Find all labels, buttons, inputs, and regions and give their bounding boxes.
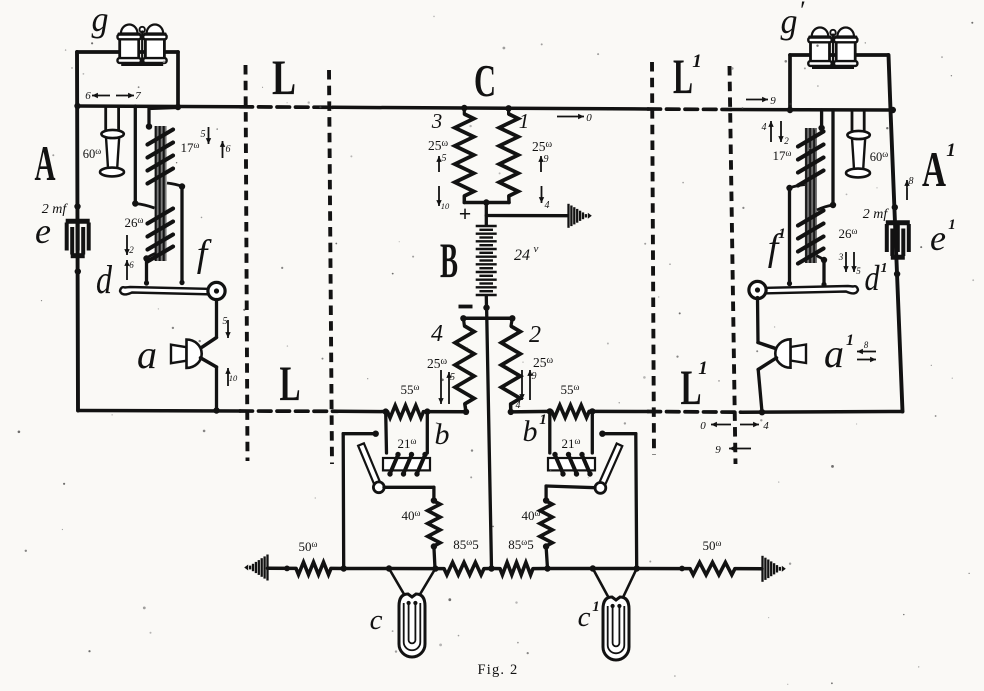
resistor 1 (25w) leads	[507, 108, 510, 114]
svg-text:+: +	[459, 201, 472, 226]
svg-text:1: 1	[698, 358, 708, 379]
node: lamp c1 left junction	[590, 565, 596, 571]
wire: hook pivot to transmitter (A1)	[756, 298, 760, 343]
wire: tap junction to coil	[135, 204, 154, 209]
wire: bottom wire to 55w resistor (left)	[338, 410, 388, 414]
transmitter a (station A)	[171, 345, 187, 364]
arrow 2 down (A1 coil)	[780, 121, 782, 142]
wire: station A left edge	[77, 52, 78, 411]
resistor 40w (left)	[428, 501, 440, 546]
node: resistor 2 bottom junction	[508, 409, 514, 415]
wire: bottom line to lamp c left	[344, 567, 389, 571]
relay b armature	[358, 443, 382, 488]
svg-text:L: L	[673, 48, 693, 104]
arrow 9 up (resistor 2)	[529, 370, 531, 400]
svg-text:2: 2	[784, 136, 789, 146]
node: junction A1 outer edge / top line	[890, 107, 896, 113]
node: hook contact upper	[144, 280, 149, 285]
node: lamp c right junction (40w)	[432, 565, 438, 571]
wire: station A1 top edge	[790, 53, 888, 57]
arrow 7 (current direction, right)	[116, 95, 134, 97]
wire: coil bottom lead (A1)	[816, 256, 824, 261]
wire: transmitter to bottom edge	[215, 367, 218, 411]
resistor 4 (25w)	[455, 326, 474, 404]
resistor 85w5 (left)	[444, 562, 484, 574]
svg-text:3: 3	[838, 252, 844, 262]
svg-text:′: ′	[800, 0, 806, 25]
arrow 1 (by a1)	[857, 359, 876, 361]
ringer g1 (polarized bell)	[812, 28, 829, 37]
svg-text:e: e	[35, 211, 51, 251]
transmitter a1 (station A1)	[791, 345, 807, 364]
svg-text:6: 6	[226, 144, 231, 155]
wire: bottom line to lamp c1 left	[548, 567, 593, 571]
wire: bottom wire node 2 to 55w (right)	[511, 410, 552, 414]
resistor 4 (25w) leads	[463, 318, 464, 326]
resistor 50w (right)	[690, 562, 735, 574]
arrow 5 up (resistor 3)	[438, 156, 440, 172]
wire: station A1 inner edge (ringer box left)	[788, 55, 792, 110]
wire: bottom line L section (dashed)	[240, 409, 338, 413]
arrow 9 (current direction into A1)	[746, 99, 768, 101]
node: resistor 3 top junction	[461, 105, 467, 111]
svg-text:3: 3	[431, 109, 443, 133]
svg-text:L: L	[280, 355, 301, 411]
condenser e 2mf (station A)	[66, 219, 90, 224]
wire: bottom line L1 section (dashed)	[648, 410, 741, 414]
wire: top line L section (dashed)	[240, 105, 333, 109]
wire: bottom edge station A1	[741, 410, 903, 414]
svg-text:6: 6	[85, 90, 91, 102]
node: transmitter / bottom edge junction	[213, 407, 219, 413]
scan speckle noise	[319, 106, 321, 108]
svg-text:9: 9	[532, 371, 537, 382]
node: coil tap junction (A1)	[830, 202, 836, 208]
svg-text:5: 5	[442, 153, 447, 164]
node: transmitter / bottom edge junction (A1)	[759, 409, 765, 415]
wire: receiver hanger left (A1)	[851, 110, 854, 134]
node: junction ringer box right edge / top line	[175, 104, 181, 110]
node: relay b contact / bottom line	[341, 565, 347, 571]
wire: coil bottom to hook contact	[145, 259, 148, 285]
wire: 50w to right earth	[735, 567, 762, 571]
wire: station A1 outer edge	[889, 55, 903, 412]
relay b1 armature	[598, 444, 623, 490]
ground (bottom left earth)	[266, 555, 268, 581]
wire: tap junction to coil (A1)	[817, 205, 833, 210]
svg-text:9: 9	[544, 154, 549, 165]
node: coil bottom junction	[143, 255, 149, 261]
node: coil top junction (A1)	[818, 125, 824, 131]
svg-text:4: 4	[545, 200, 550, 211]
svg-text:2: 2	[129, 245, 134, 255]
resistor 3 (25w) leads	[463, 108, 466, 114]
svg-text:6: 6	[129, 260, 134, 270]
svg-text:d: d	[96, 257, 113, 302]
arrow 4 down (resistor 2)	[521, 370, 523, 400]
battery B lead bottom	[485, 296, 489, 308]
svg-text:5: 5	[856, 266, 861, 276]
wire: 50w to relay contact node	[331, 567, 344, 571]
wire: transmitter to bottom edge (A1)	[758, 370, 762, 413]
svg-text:1: 1	[946, 140, 956, 161]
node: relay b1 contact tip	[599, 431, 605, 437]
boundary L dash-dot line (inner left)	[329, 70, 332, 464]
arrow 8 (by a1)	[857, 351, 876, 353]
wire: lamp c node to 85w5	[435, 567, 444, 571]
svg-text:85ω5: 85ω5	[508, 537, 533, 552]
svg-text:5: 5	[201, 129, 206, 140]
boundary L1 dash-dot line (outer right)	[730, 66, 736, 464]
wire: relay b coil left lead	[384, 412, 388, 453]
wire: receiver hanger right (A1)	[863, 110, 866, 134]
svg-text:10: 10	[441, 201, 450, 211]
svg-text:e: e	[930, 218, 946, 258]
svg-text:B: B	[440, 232, 458, 288]
wire: 85w5 right to 40w node	[533, 567, 548, 571]
wire: battery - split bar	[463, 317, 512, 321]
node: tap f junction	[179, 183, 185, 189]
node: 40w bottom junction (left)	[431, 543, 437, 549]
wire: coil top lead (A1)	[820, 110, 823, 128]
wire: lamp c1 to 50w right	[637, 567, 690, 571]
ground (bottom right earth)	[761, 556, 763, 582]
wire: transmitter upper slant	[201, 338, 217, 349]
svg-text:c: c	[578, 601, 591, 633]
svg-text:1: 1	[592, 599, 600, 615]
node: junction A1 inner edge / top line	[787, 107, 793, 113]
svg-text:1: 1	[881, 261, 888, 276]
wire: ringer box right edge	[176, 52, 180, 107]
svg-text:5: 5	[450, 372, 455, 383]
wire: contact f1 down to hook	[788, 188, 791, 285]
coil winding 26w (station A1)	[798, 211, 824, 226]
node: tap f1 junction	[786, 185, 792, 191]
svg-text:A: A	[35, 135, 56, 191]
ringer g (polarized bell)	[121, 25, 138, 34]
svg-text:b: b	[523, 415, 538, 448]
svg-text:9: 9	[715, 444, 721, 456]
wire: relay b coil right lead	[426, 412, 429, 453]
node: 55w right junction (relay b)	[424, 408, 430, 414]
svg-text:A: A	[922, 141, 946, 197]
node: 40w top junction (left)	[431, 497, 437, 503]
resistor 1 (25w)	[499, 114, 518, 196]
node: hook contact upper (A1)	[821, 282, 826, 287]
wire: transmitter upper slant (A1)	[758, 343, 777, 349]
switch-hook d1 (station A1)	[758, 286, 859, 294]
node: coil primary tap junction	[132, 200, 138, 206]
battery B 24v (exchange)	[476, 225, 497, 227]
wire: bottom wire 55w to node 4 (left)	[424, 410, 467, 414]
node: lamp c left junction	[386, 565, 392, 571]
wire: top line wire (solid, station A to L section)	[77, 104, 240, 108]
arrow 5 up (resistor 4)	[448, 372, 450, 404]
svg-text:d: d	[865, 258, 881, 298]
wire: lamp c1 bridge	[593, 567, 637, 571]
node: 55w left junction (relay b)	[383, 408, 389, 414]
node: 55w right junction (relay b1)	[589, 408, 595, 414]
arrow down (resistor 4)	[440, 370, 442, 404]
svg-text:7: 7	[135, 90, 141, 102]
svg-text:24: 24	[514, 247, 530, 264]
svg-text:4: 4	[763, 420, 769, 432]
svg-text:Fig. 2: Fig. 2	[477, 662, 518, 678]
node: 55w left junction (relay b1)	[547, 408, 553, 414]
svg-text:c: c	[370, 604, 383, 636]
wire: 85w5 to centre node	[484, 567, 492, 571]
wire: coil bottom to hook contact (A1)	[822, 260, 825, 286]
wire: relay b1 coil left lead	[548, 411, 551, 453]
lamp c1 (supervisory glow lamp right)	[593, 569, 613, 606]
svg-text:C: C	[474, 55, 496, 106]
node: contact f1 lower end	[787, 281, 792, 286]
resistor 85w5 (right)	[500, 562, 533, 574]
lamp c (supervisory glow lamp left)	[389, 569, 409, 603]
arrow 8 up (A1 edge)	[906, 180, 908, 200]
arrow 10 down (resistor 3)	[438, 186, 440, 206]
svg-text:9: 9	[770, 95, 776, 107]
svg-text:a: a	[824, 331, 844, 376]
node: 40w top junction (right)	[543, 497, 549, 503]
wire: centre wire battery - to bottom line	[487, 308, 492, 569]
wire: top line solid across exchange C	[333, 107, 648, 109]
svg-text:4: 4	[516, 400, 521, 411]
wire: receiver hanger left	[104, 106, 107, 133]
svg-text:85ω5: 85ω5	[453, 537, 478, 552]
svg-text:g: g	[781, 1, 798, 41]
wire: relay b1 contact	[602, 432, 635, 435]
wire: centre node to 85w5 right	[492, 567, 501, 571]
svg-text:1: 1	[692, 51, 702, 72]
svg-text:0: 0	[586, 112, 592, 124]
svg-text:1: 1	[948, 217, 956, 233]
arrow 6 (current direction, left)	[92, 95, 110, 97]
resistor 40w (right)	[540, 501, 552, 546]
node: condenser e top junction	[74, 203, 80, 209]
node: battery - junction	[483, 304, 489, 310]
wire: 40w bottom lead (right)	[546, 547, 547, 569]
node: lamp c1 right junction (relay contact)	[634, 565, 640, 571]
svg-text:2: 2	[529, 322, 541, 348]
wire: left earth to 50w	[268, 567, 297, 571]
node: resistor 1 top junction	[505, 105, 511, 111]
wire: transmitter lower slant (A1)	[758, 358, 776, 370]
wire: 40w top lead (right)	[544, 486, 547, 501]
battery B lead top	[485, 203, 488, 226]
condenser e1 2mf (station A1)	[886, 220, 910, 225]
arrow 10 up (by transmitter)	[227, 368, 229, 386]
coil winding 17w (station A1)	[798, 132, 824, 147]
wire: bottom wire 55w right to L1	[589, 410, 648, 414]
svg-text:2 mf: 2 mf	[863, 207, 890, 222]
svg-text:4: 4	[431, 321, 443, 347]
arrow 9 up (resistor 1)	[540, 156, 542, 172]
node: 40w right / bottom line	[544, 565, 550, 571]
wire: lamp c bridge	[389, 567, 435, 571]
svg-text:a: a	[137, 332, 157, 377]
wire: top line to induction-coil primary tap	[134, 106, 137, 204]
svg-text:1: 1	[539, 412, 547, 428]
ground (exchange earth, battery +)	[567, 204, 569, 228]
svg-text:g: g	[92, 0, 109, 39]
svg-text:10: 10	[229, 373, 238, 383]
svg-text:1: 1	[778, 226, 786, 242]
wire: coil tap to contact f1	[790, 185, 805, 189]
resistor 3 (25w)	[455, 114, 474, 196]
coil winding 17w (station A)	[148, 130, 174, 145]
wire: top line L1 section (dashed)	[648, 107, 731, 111]
svg-text:4: 4	[762, 122, 767, 133]
resistor 55w (left)	[388, 405, 424, 417]
relay coil b1 21w (right)	[548, 458, 595, 470]
wire: resistor 3/1 common bar	[464, 201, 509, 205]
wire: transmitter lower slant	[201, 358, 217, 367]
node: coil top junction	[146, 123, 152, 129]
node: relay b contact tip	[373, 431, 379, 437]
receiver 60w (station A1)	[852, 138, 865, 170]
node: contact f lower end	[179, 280, 184, 285]
resistor 2 (25w) leads	[511, 318, 512, 326]
wire: hook pivot to transmitter	[215, 300, 218, 337]
wire: 40w bottom lead (left)	[434, 547, 435, 569]
induction coil core (station A1)	[805, 128, 817, 263]
wire: relay b1 pivot to 40w	[546, 486, 595, 488]
wire: coil top lead to top line	[149, 108, 177, 127]
switch-hook d (station A)	[120, 287, 217, 295]
svg-text:1: 1	[519, 109, 530, 133]
wire: 40w top lead (left)	[432, 487, 435, 501]
resistor 55w (right)	[552, 405, 589, 417]
arrow 4 (L1 bottom, right)	[740, 424, 759, 426]
relay coil b 21w (left)	[383, 458, 430, 470]
arrow 5 down (A1 26w)	[853, 252, 855, 272]
node: condenser e1 bottom junction	[894, 271, 900, 277]
node: coil bottom junction (A1)	[821, 257, 827, 263]
svg-text:L: L	[272, 49, 296, 105]
wire: contact f down to hook	[180, 187, 183, 284]
wire: top line wire (solid, L1 to station A1)	[731, 108, 893, 112]
resistor 50w (left)	[296, 562, 331, 574]
wire: top line to coil tap (A1)	[831, 110, 834, 205]
svg-text:8: 8	[909, 176, 914, 187]
wire: relay b1 contact down to bottom line	[634, 434, 638, 569]
resistor 2 (25w)	[501, 326, 520, 404]
node: resistor 2 top junction	[509, 315, 515, 321]
boundary L1 dash-dot line (inner right)	[652, 62, 654, 455]
node: junction after left earth	[284, 566, 290, 572]
svg-text:v: v	[534, 243, 539, 255]
node: resistor 4 top junction	[460, 315, 466, 321]
arrow 6 up (by 26w)	[126, 260, 128, 280]
wire: coil bottom lead	[147, 254, 156, 259]
node: battery + junction	[483, 199, 489, 205]
node: condenser e1 top junction	[892, 204, 898, 210]
svg-text:8: 8	[864, 340, 869, 350]
wire: relay b contact down to bottom line	[342, 434, 346, 569]
svg-text:5: 5	[223, 316, 228, 327]
boundary L dash-dot line (outer left)	[246, 65, 248, 461]
wire: relay b pivot to 40w	[384, 486, 434, 489]
svg-text:0: 0	[700, 420, 706, 432]
node: condenser e bottom junction	[75, 268, 81, 274]
wire: coil tap to contact f	[167, 183, 182, 187]
node: resistor 4 bottom junction	[463, 409, 469, 415]
induction coil core (station A)	[155, 126, 167, 261]
wire: relay b contact	[343, 432, 376, 435]
arrow 4 down (resistor 1)	[541, 186, 543, 203]
node: junction left edge / top line	[74, 103, 80, 109]
node: centre wire / bottom line junction	[488, 565, 494, 571]
wire: station A top edge (ringer box)	[77, 50, 178, 54]
arrow 6 up (by 17w)	[222, 141, 224, 158]
node: 40w bottom junction (right)	[543, 543, 549, 549]
arrow 0 (top line right of C)	[557, 116, 584, 118]
node: junction before right 50w	[679, 566, 685, 572]
svg-text:1: 1	[846, 332, 854, 349]
arrow 2 down (by 26w)	[126, 235, 128, 255]
wire: bottom line wire (solid from station A)	[78, 409, 240, 413]
wire: receiver hanger right	[117, 106, 120, 133]
label - (battery negative)	[459, 305, 473, 309]
wire: + node to earth	[486, 214, 567, 217]
wire: relay b1 coil right lead	[591, 411, 594, 453]
receiver 60w (station A)	[106, 137, 119, 169]
coil winding 26w (station A)	[148, 209, 174, 224]
